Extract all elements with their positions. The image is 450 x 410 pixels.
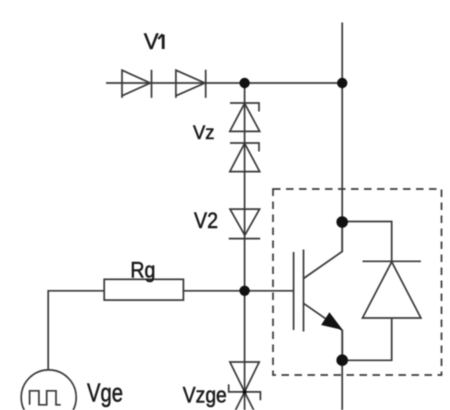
svg-text:V: V: [144, 29, 159, 54]
wire collector rail vertical lower: [341, 331, 343, 410]
IGBT Q1 channel plate: [303, 250, 305, 332]
zener Vz lower: [230, 143, 260, 172]
wire source to resistor: [48, 291, 104, 370]
node B top rail collector rail: [337, 78, 347, 88]
wire collector node to diode cathode: [342, 222, 392, 262]
TVS Vzge zener bar: [229, 384, 261, 400]
source Vge circle: [21, 370, 76, 410]
freewheel diode D1: [363, 261, 421, 318]
diode V1 first: [122, 70, 152, 98]
resistor Rg: [104, 279, 183, 300]
IGBT collector stub: [304, 222, 343, 279]
wire collector rail vertical upper: [341, 23, 343, 252]
diode V1 second: [176, 70, 206, 98]
square wave glyph: [30, 391, 61, 405]
wire top rail horizontal: [106, 82, 342, 84]
wire resistor to gate node to IGBT gate: [183, 290, 293, 292]
TVS Vzge top triangle: [230, 362, 259, 392]
svg-text:Vz: Vz: [193, 122, 215, 144]
wire diode anode to emitter node: [342, 318, 392, 360]
node gate branch resistor junction: [239, 286, 249, 296]
node collector: [336, 216, 348, 228]
IGBT emitter arrowhead: [321, 312, 343, 330]
svg-text:Vge: Vge: [87, 378, 123, 408]
node emitter: [336, 354, 348, 366]
IGBT emitter stub: [304, 303, 343, 360]
dashed enclosure box: [273, 189, 442, 375]
wire gate branch vertical: [244, 83, 246, 410]
junction TVS apex: [242, 390, 246, 394]
svg-text:V2: V2: [194, 208, 218, 233]
svg-text:Vzge: Vzge: [183, 383, 227, 408]
svg-text:Rg: Rg: [130, 257, 155, 282]
diode V2: [229, 209, 261, 239]
IGBT Q1 gate plate: [293, 252, 295, 330]
zener Vz upper: [230, 103, 260, 131]
label V1 digit stroke: [162, 35, 165, 49]
node A top rail gate branch: [239, 78, 249, 88]
TVS Vzge bottom triangle: [230, 392, 259, 410]
